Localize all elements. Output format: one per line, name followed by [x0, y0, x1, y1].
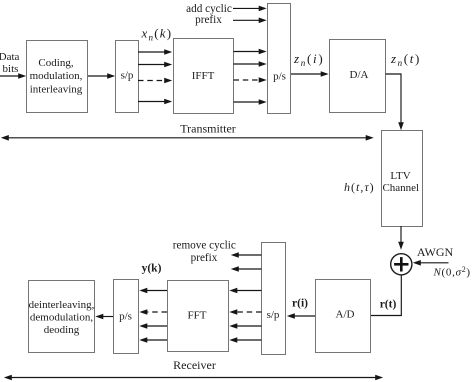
- block Coding, modulation, interleaving: [27, 41, 88, 113]
- wire FFT to p/s arrow 3: [139, 323, 167, 329]
- svg-text:IFFT: IFFT: [192, 70, 215, 82]
- svg-text:demodulation,: demodulation,: [30, 311, 93, 323]
- svg-text:Transmitter: Transmitter: [180, 122, 236, 136]
- block s/p serial-to-parallel: [116, 41, 139, 113]
- node h(t,tau) label: [344, 180, 375, 194]
- wire s/p to FFT arrow 3: [229, 323, 261, 329]
- svg-text:xn(k): xn(k): [141, 26, 173, 43]
- wire FFT to p/s arrow 1: [139, 288, 167, 294]
- block p/s parallel-to-serial: [268, 4, 291, 114]
- block deinterleaving, demodulation, deoding: [29, 281, 95, 353]
- block LTV Channel: [382, 131, 423, 227]
- node N(0,sigma^2) label: [433, 265, 471, 279]
- svg-text:modulation,: modulation,: [30, 70, 83, 82]
- block s/p receiver: [262, 243, 286, 355]
- svg-text:remove cyclic: remove cyclic: [173, 240, 236, 252]
- wire add cyclic prefix arrow 2: [233, 18, 267, 24]
- wire p/s to D/A: [291, 71, 329, 77]
- wire adder to A/D: [371, 275, 402, 316]
- block IFFT: [174, 39, 234, 114]
- svg-text:h(t,τ): h(t,τ): [344, 180, 375, 194]
- wire IFFT to p/s arrow 3 dashed: [234, 77, 267, 83]
- wire FFT to p/s arrow 2 dashed: [139, 309, 167, 315]
- svg-text:Channel: Channel: [382, 182, 419, 194]
- svg-text:y(k): y(k): [142, 263, 162, 275]
- block p/s receiver: [114, 280, 139, 354]
- wire D/A to LTV channel: [386, 74, 404, 130]
- wire remove cyclic arrow 2: [231, 266, 262, 272]
- wire s/p to FFT arrow 4: [229, 337, 261, 343]
- svg-text:FFT: FFT: [188, 310, 207, 322]
- svg-text:LTV: LTV: [390, 170, 410, 182]
- svg-text:bits: bits: [3, 63, 19, 75]
- wire s/p to IFFT arrow 4: [138, 99, 172, 105]
- svg-text:interleaving: interleaving: [30, 84, 83, 96]
- wire s/p to IFFT arrow 1: [138, 49, 172, 55]
- block FFT: [168, 281, 229, 352]
- wire data bits input arrow: [0, 73, 26, 79]
- wire IFFT to p/s arrow 1: [234, 49, 267, 55]
- wire A/D to s/p: [287, 313, 315, 319]
- svg-text:D/A: D/A: [350, 69, 369, 81]
- svg-text:r(i): r(i): [292, 298, 308, 310]
- node r(i) label: [292, 298, 308, 310]
- wire p/s to deinterleaving: [95, 314, 113, 320]
- wire IFFT to p/s arrow 2: [234, 61, 267, 67]
- node Transmitter span arrow: [1, 122, 374, 141]
- svg-text:Coding,: Coding,: [38, 57, 73, 69]
- wire IFFT to p/s arrow 4: [234, 99, 267, 105]
- node x_n(k) label: [141, 26, 173, 43]
- node AWGN label: [417, 245, 454, 259]
- svg-text:s/p: s/p: [267, 309, 280, 321]
- wire s/p to IFFT arrow 3 dashed: [138, 78, 172, 84]
- svg-text:s/p: s/p: [121, 70, 134, 82]
- wire coding to s/p: [88, 73, 115, 79]
- svg-text:deinterleaving,: deinterleaving,: [29, 299, 95, 311]
- svg-text:Data: Data: [0, 51, 19, 63]
- svg-text:A/D: A/D: [336, 309, 355, 321]
- svg-text:p/s: p/s: [119, 310, 132, 322]
- node remove cyclic prefix label: [173, 240, 236, 265]
- svg-text:zn(i): zn(i): [293, 51, 324, 68]
- wire s/p to IFFT arrow 2: [138, 62, 172, 68]
- adder sum junction: [391, 254, 412, 275]
- block D/A: [330, 40, 386, 113]
- svg-text:prefix: prefix: [195, 14, 222, 26]
- node Data bits: [0, 51, 19, 75]
- svg-text:Receiver: Receiver: [173, 358, 216, 372]
- node Receiver span arrow: [4, 358, 383, 380]
- svg-text:deoding: deoding: [44, 324, 80, 336]
- node z_n(t) label: [390, 51, 421, 68]
- node z_n(i) label: [293, 51, 324, 68]
- wire AWGN into adder: [413, 260, 449, 266]
- wire add cyclic prefix arrow 1: [233, 6, 267, 12]
- block A/D: [316, 280, 371, 353]
- svg-text:r(t): r(t): [380, 299, 397, 311]
- wire s/p to FFT arrow 1: [229, 288, 261, 294]
- svg-text:AWGN: AWGN: [417, 245, 454, 259]
- wire remove cyclic arrow 1: [231, 252, 262, 258]
- wire FFT to p/s arrow 4: [139, 337, 167, 343]
- wire LTV to adder: [398, 226, 404, 250]
- svg-text:zn(t): zn(t): [390, 51, 421, 68]
- svg-text:prefix: prefix: [191, 252, 218, 264]
- svg-text:p/s: p/s: [273, 71, 286, 83]
- wire s/p to FFT arrow 2 dashed: [229, 309, 261, 315]
- node add cyclic prefix label: [186, 3, 232, 26]
- node r(t) label: [380, 299, 397, 311]
- node y(k) label: [142, 263, 162, 275]
